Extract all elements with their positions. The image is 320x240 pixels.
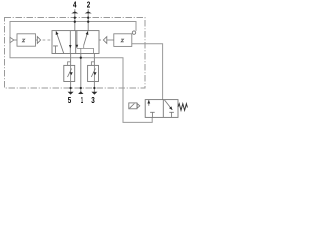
svg-text:2: 2 (87, 0, 91, 10)
svg-text:3: 3 (91, 95, 95, 105)
svg-text:4: 4 (73, 0, 77, 10)
svg-text:1: 1 (81, 95, 83, 105)
svg-text:5: 5 (68, 95, 72, 105)
